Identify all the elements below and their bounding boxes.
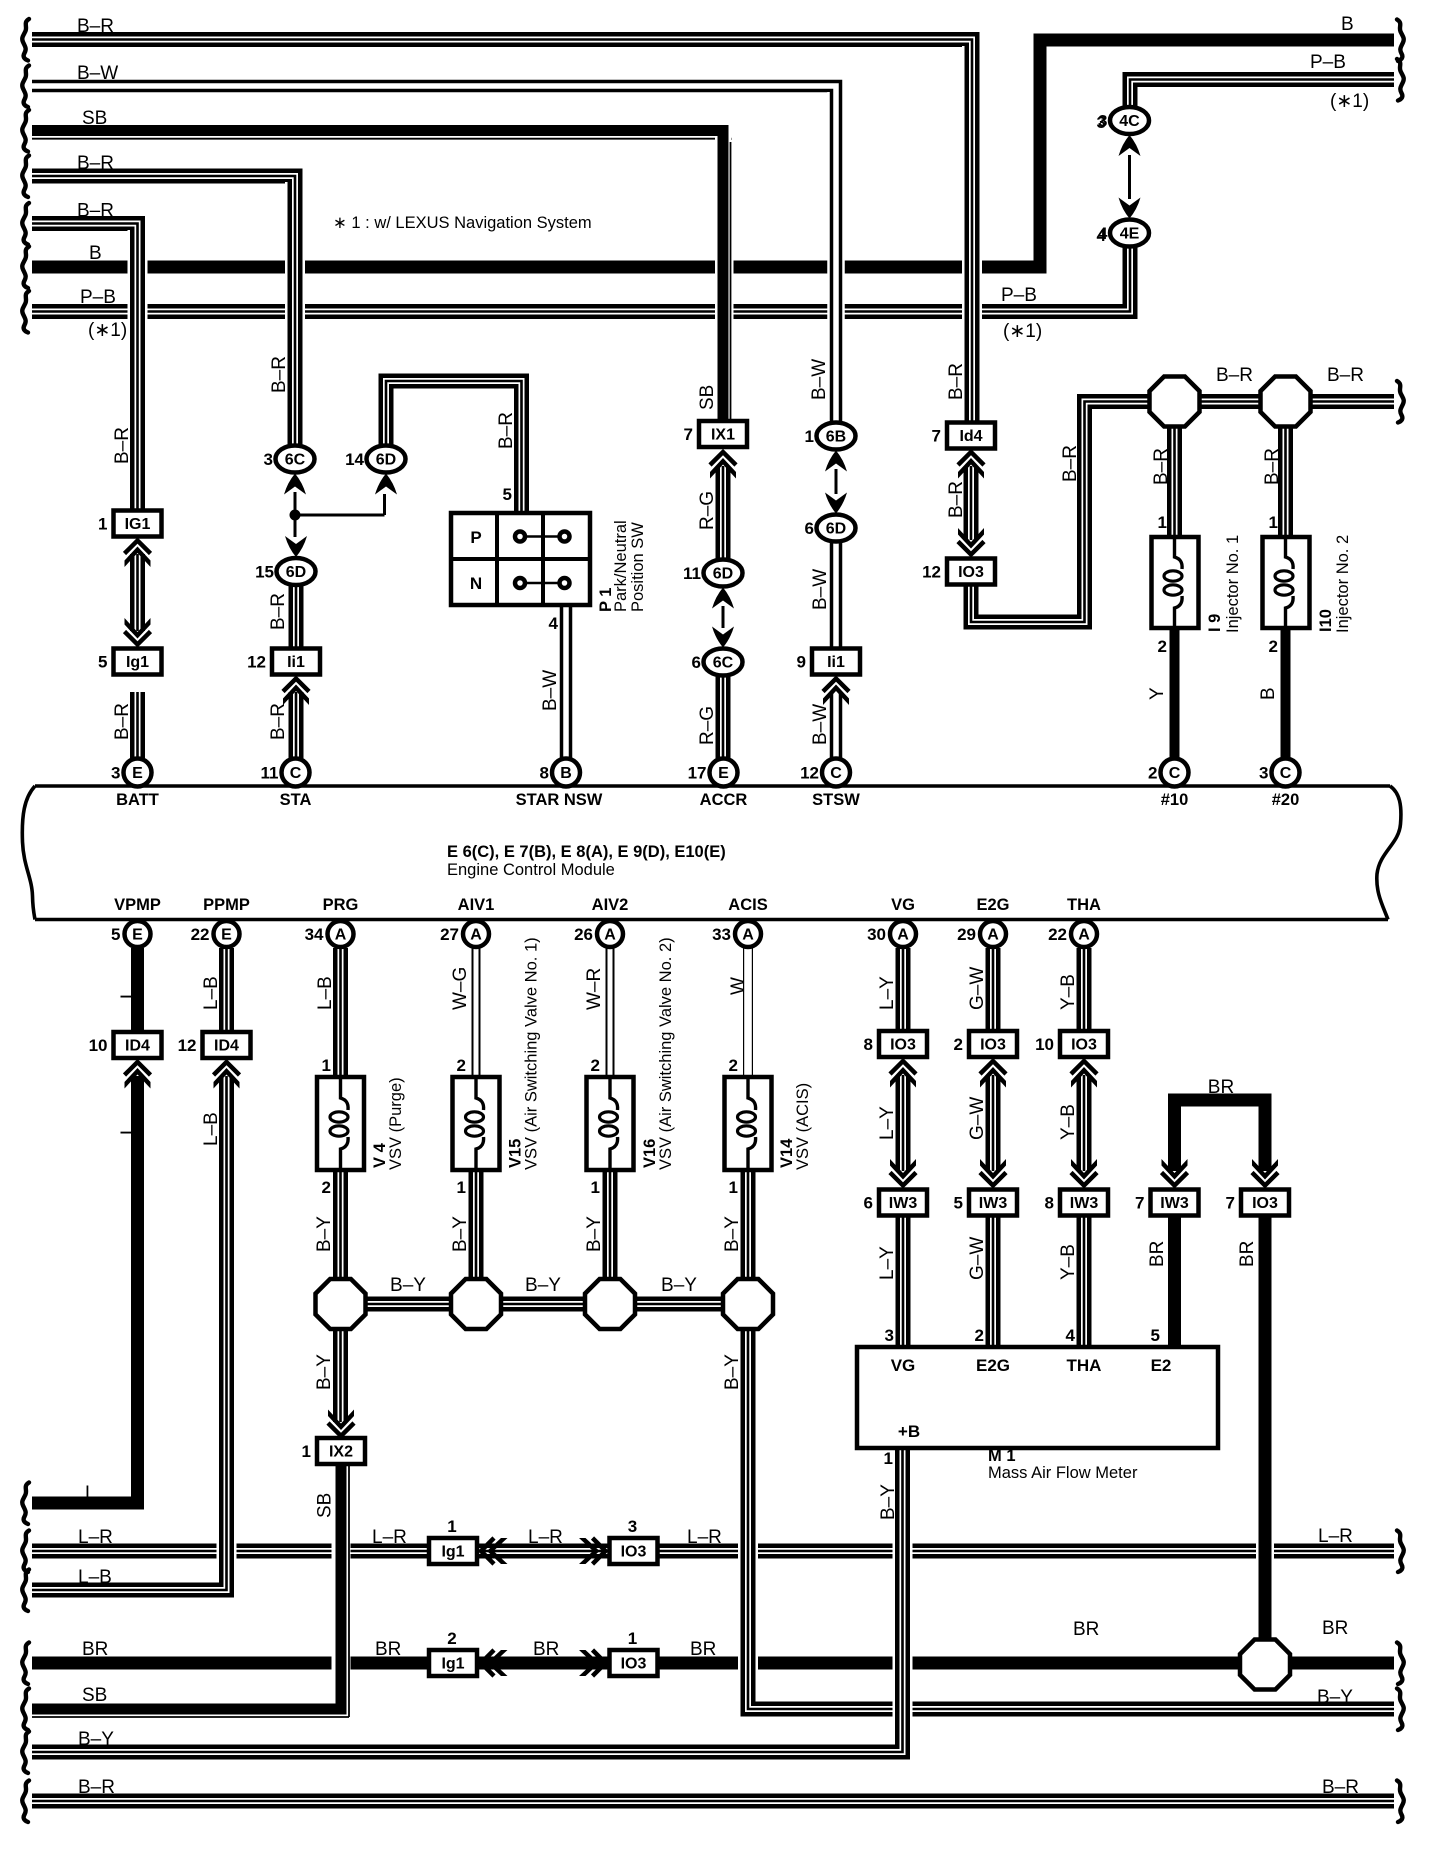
terminal A pin27 AIV1: [463, 921, 489, 947]
svg-text:2: 2: [975, 1326, 984, 1345]
svg-text:L–B: L–B: [78, 1567, 112, 1588]
svg-text:ACCR: ACCR: [700, 791, 748, 809]
svg-text:B–Y: B–Y: [584, 1216, 605, 1252]
svg-text:Y–B: Y–B: [1058, 974, 1079, 1010]
connector ID4 pin10: [114, 1032, 162, 1058]
svg-text:30: 30: [867, 925, 886, 944]
arrow into Ig1 bottom L-R: [481, 1538, 494, 1564]
svg-text:A: A: [335, 927, 347, 944]
svg-text:4E: 4E: [1120, 226, 1140, 243]
svg-text:SB: SB: [697, 385, 718, 410]
svg-text:4: 4: [1066, 1326, 1076, 1345]
wire bus B-R top5: [32, 224, 138, 513]
connector ID4 pin12: [203, 1032, 251, 1058]
svg-text:B–R: B–R: [78, 1777, 115, 1798]
svg-text:+B: +B: [898, 1422, 920, 1441]
wire B-R STA column: [285, 182, 305, 445]
wire W-G AIV1 column: [472, 948, 481, 1077]
wire bus B thick: [32, 40, 1394, 267]
wire B-Y mass air flow pin1 down to left bus: [893, 1448, 913, 1744]
svg-text:26: 26: [574, 925, 593, 944]
svg-text:L–Y: L–Y: [877, 1106, 898, 1140]
terminal E pin22 PPMP: [214, 921, 240, 947]
svg-text:VSV (Air Switching Valve No. 2: VSV (Air Switching Valve No. 2): [657, 937, 675, 1170]
svg-text:IX2: IX2: [329, 1444, 353, 1461]
arrow into IO3 pin2: [980, 1061, 1006, 1074]
connector oval 4C pin3: [1110, 107, 1149, 134]
svg-text:3: 3: [111, 764, 120, 783]
arrow into Id4: [958, 452, 984, 465]
connector Ig1 pin1 bottom: [429, 1538, 477, 1564]
valve V14 VSV ACIS: [725, 1077, 772, 1170]
node octagon junction A: [316, 1279, 366, 1329]
svg-text:B–Y: B–Y: [878, 1484, 899, 1520]
svg-text:11: 11: [261, 764, 279, 783]
svg-text:I10: I10: [1317, 609, 1335, 632]
svg-text:Y–B: Y–B: [1058, 1104, 1079, 1140]
wire Y injector1 to ECM #10: [1170, 628, 1180, 759]
arrow into Ig1 bottom BR: [481, 1650, 494, 1676]
wire B-R bus bottom: [32, 1794, 1394, 1809]
terminal E pin5 VPMP: [125, 921, 151, 947]
svg-text:B–R: B–R: [1216, 365, 1253, 386]
svg-text:Injector No. 1: Injector No. 1: [1224, 535, 1242, 633]
wire B-R Id4 column: [962, 46, 982, 421]
svg-text:E2G: E2G: [976, 1356, 1010, 1375]
svg-text:A: A: [897, 927, 909, 944]
node junction dot STA: [290, 510, 301, 521]
node octagon junction E: [1240, 1640, 1290, 1690]
svg-text:#20: #20: [1272, 791, 1300, 809]
svg-text:THA: THA: [1067, 896, 1101, 914]
svg-text:I 9: I 9: [1206, 614, 1224, 632]
svg-text:SB: SB: [82, 108, 107, 129]
connector IO3 pin1 bottom: [610, 1650, 658, 1676]
svg-text:6D: 6D: [286, 564, 306, 581]
svg-text:6: 6: [805, 519, 814, 538]
svg-text:2: 2: [447, 1629, 456, 1648]
svg-text:1: 1: [457, 1178, 466, 1197]
arrow into ID4 pin10: [125, 1062, 151, 1075]
svg-text:B–Y: B–Y: [314, 1216, 335, 1252]
torn edge left B-R: [22, 1781, 29, 1823]
svg-text:C: C: [1280, 765, 1292, 782]
svg-text:9: 9: [797, 653, 806, 672]
wire R-G ACCR column: [716, 466, 731, 560]
svg-text:IW3: IW3: [979, 1195, 1008, 1212]
wire bus P-B right: [1130, 80, 1394, 109]
svg-text:A: A: [470, 927, 482, 944]
terminal A pin29 E2G: [980, 921, 1006, 947]
terminal C pin11 STA: [282, 759, 310, 787]
wire L-Y VG column: [896, 948, 911, 1031]
wire thin link 6B to 6D6: [835, 469, 838, 494]
svg-text:W: W: [728, 977, 749, 995]
torn edge left bus2: [22, 66, 29, 108]
svg-text:STA: STA: [280, 791, 312, 809]
svg-text:5: 5: [1151, 1326, 1160, 1345]
terminal A pin22 THA: [1071, 921, 1097, 947]
svg-text:C: C: [1169, 765, 1181, 782]
svg-text:IX1: IX1: [711, 427, 735, 444]
svg-text:L: L: [118, 1124, 139, 1135]
connector Ii1 pin9: [812, 649, 860, 675]
svg-text:IO3: IO3: [1071, 1037, 1097, 1054]
svg-text:IO3: IO3: [621, 1656, 647, 1673]
connector IO3 pin2: [969, 1031, 1017, 1057]
ECM module band Engine Control Module: [35, 784, 1390, 788]
svg-text:8: 8: [1045, 1194, 1054, 1213]
svg-text:Ii1: Ii1: [287, 654, 305, 671]
svg-text:G–W: G–W: [967, 967, 988, 1010]
svg-text:L: L: [118, 988, 139, 999]
wire B-R IO3-12 to octagon junction: [971, 402, 1152, 623]
arrow into IO3 bottom BR: [593, 1650, 606, 1676]
svg-text:(∗1): (∗1): [88, 320, 127, 341]
svg-text:6D: 6D: [376, 452, 396, 469]
svg-text:8: 8: [540, 764, 549, 783]
connector oval 6D pin15: [277, 558, 316, 585]
svg-text:Ig1: Ig1: [441, 1656, 464, 1673]
arrow into IO3 pin10: [1071, 1061, 1097, 1074]
connector Id4 pin7: [947, 423, 995, 449]
node octagon junction D: [723, 1279, 773, 1329]
svg-text:A: A: [604, 927, 616, 944]
torn edge left SB: [22, 1689, 29, 1731]
svg-text:L–B: L–B: [201, 1112, 222, 1146]
arrow into ID4 pin12: [214, 1062, 240, 1075]
terminal A pin33 ACIS: [735, 921, 761, 947]
svg-text:C: C: [830, 765, 842, 782]
svg-text:Mass Air Flow Meter: Mass Air Flow Meter: [988, 1464, 1138, 1482]
svg-text:B–R: B–R: [1327, 365, 1364, 386]
svg-text:M 1: M 1: [988, 1447, 1016, 1465]
svg-text:Id4: Id4: [959, 428, 982, 445]
terminal A pin30 VG: [890, 921, 916, 947]
switch contacts P row: [520, 535, 565, 538]
svg-text:BATT: BATT: [116, 791, 159, 809]
svg-text:4C: 4C: [1119, 113, 1140, 130]
wire B-Y octagon A to IX2: [333, 1327, 348, 1422]
svg-text:B–R: B–R: [946, 481, 967, 518]
svg-text:E: E: [221, 927, 232, 944]
svg-text:10: 10: [89, 1036, 108, 1055]
wire BR bus bottom: [32, 1657, 1394, 1670]
svg-text:B–R: B–R: [1151, 448, 1172, 485]
valve V4 VSV Purge: [317, 1077, 364, 1170]
svg-text:2: 2: [1269, 637, 1278, 656]
arrow into IX2: [328, 1423, 354, 1436]
svg-text:W–G: W–G: [450, 967, 471, 1010]
svg-text:6D: 6D: [713, 566, 733, 583]
svg-text:Y: Y: [1147, 687, 1168, 700]
wire thin link junction to 6D14: [295, 494, 385, 515]
wire thin link junction to 6D15: [294, 515, 297, 537]
svg-text:B–W: B–W: [810, 569, 831, 610]
terminal E pin17 ACCR: [710, 759, 738, 787]
arrow into Ii1 pin12: [283, 679, 309, 692]
wire SB IX1 column halo: [715, 136, 731, 420]
svg-text:7: 7: [1226, 1194, 1235, 1213]
arrow into IO3 pin12: [958, 542, 984, 555]
svg-text:BR: BR: [690, 1639, 716, 1660]
wire SB bus bottom: [32, 1704, 341, 1715]
svg-text:33: 33: [712, 925, 731, 944]
torn edge right bus B: [1397, 20, 1404, 62]
svg-text:11: 11: [683, 564, 701, 583]
svg-text:12: 12: [247, 653, 266, 672]
svg-text:PPMP: PPMP: [203, 896, 250, 914]
svg-text:12: 12: [800, 764, 819, 783]
svg-text:22: 22: [1048, 925, 1067, 944]
svg-text:G–W: G–W: [967, 1237, 988, 1280]
svg-text:Engine Control Module: Engine Control Module: [447, 861, 615, 879]
svg-text:27: 27: [440, 925, 459, 944]
svg-text:#10: #10: [1161, 791, 1189, 809]
svg-text:2: 2: [954, 1035, 963, 1054]
svg-text:VSV (Air Switching Valve No. 1: VSV (Air Switching Valve No. 1): [523, 937, 541, 1170]
svg-text:L–B: L–B: [315, 976, 336, 1010]
svg-text:15: 15: [255, 563, 274, 582]
wire G-W E2G column: [986, 948, 1001, 1031]
torn edge right B-Y: [1397, 1689, 1404, 1731]
svg-text:12: 12: [922, 563, 941, 582]
connector IW3 pin6: [879, 1190, 927, 1216]
svg-text:34: 34: [305, 925, 324, 944]
svg-text:B: B: [1341, 14, 1354, 35]
svg-text:IO3: IO3: [621, 1544, 647, 1561]
wire B-R BATT column IG1 to Ig1 to ECM: [128, 230, 148, 512]
wire Y-B THA column: [1077, 948, 1092, 1031]
torn edge left L: [22, 1483, 29, 1525]
svg-text:6: 6: [864, 1194, 873, 1213]
connector oval 6D pin11: [704, 560, 743, 587]
wire bus SB top3: [32, 131, 723, 421]
svg-text:AIV2: AIV2: [592, 896, 629, 914]
connector oval 6D pin14: [367, 446, 406, 473]
svg-text:P–B: P–B: [80, 287, 116, 308]
svg-text:VG: VG: [891, 1356, 916, 1375]
svg-text:E: E: [132, 927, 143, 944]
svg-text:2: 2: [457, 1056, 466, 1075]
arrow into IO3 bottom L-R: [593, 1538, 606, 1564]
torn edge left bus1: [22, 19, 29, 61]
torn edge left bus P-B: [22, 291, 29, 333]
torn edge left L-R: [22, 1531, 29, 1573]
wire thin link 6C3 junction: [294, 492, 297, 515]
torn edge left L-B: [22, 1570, 29, 1612]
svg-text:B–W: B–W: [810, 704, 831, 745]
svg-text:A: A: [987, 927, 999, 944]
svg-text:BR: BR: [375, 1639, 401, 1660]
svg-text:BR: BR: [1208, 1077, 1234, 1098]
svg-text:ID4: ID4: [214, 1038, 239, 1055]
connector IW3 pin5: [969, 1190, 1017, 1216]
svg-text:Park/Neutral: Park/Neutral: [612, 520, 630, 612]
svg-text:14: 14: [345, 450, 364, 469]
arrow into IO3 pin8: [890, 1061, 916, 1074]
svg-text:12: 12: [178, 1036, 197, 1055]
svg-text:SB: SB: [315, 1493, 336, 1518]
svg-text:B–W: B–W: [77, 63, 118, 84]
svg-text:A: A: [1078, 927, 1090, 944]
arrow into 6D pin11: [712, 588, 734, 609]
arrow into 6C pin6: [712, 627, 734, 648]
svg-text:8: 8: [864, 1035, 873, 1054]
torn edge right B-R octagons: [1397, 381, 1404, 423]
svg-text:ID4: ID4: [125, 1038, 150, 1055]
svg-text:Ig1: Ig1: [441, 1544, 464, 1561]
meter M1 Mass Air Flow Meter: [857, 1347, 1218, 1448]
svg-text:6B: 6B: [826, 429, 846, 446]
svg-text:B–R: B–R: [1262, 448, 1283, 485]
svg-text:A: A: [742, 927, 754, 944]
svg-text:5: 5: [111, 925, 120, 944]
svg-text:B–R: B–R: [77, 201, 114, 222]
svg-text:5: 5: [98, 653, 107, 672]
svg-text:B: B: [89, 243, 102, 264]
torn edge left B-Y: [22, 1732, 29, 1774]
torn edge left bus3: [22, 110, 29, 152]
svg-text:1: 1: [805, 427, 814, 446]
connector IX1 pin7: [699, 421, 747, 447]
node octagon junction C: [585, 1279, 635, 1329]
svg-text:B–Y: B–Y: [390, 1275, 426, 1296]
connector oval 6B pin1: [817, 423, 856, 450]
svg-text:B–R: B–R: [269, 356, 290, 393]
svg-text:B–R: B–R: [496, 412, 517, 449]
arrow into 6D pin15: [285, 536, 307, 557]
wire L-B bus bottom: [32, 1583, 227, 1598]
arrow into IW3 pin7: [1162, 1173, 1188, 1186]
connector IX2 pin1: [317, 1438, 365, 1464]
svg-text:6: 6: [692, 653, 701, 672]
svg-text:ACIS: ACIS: [728, 896, 767, 914]
wire B-Y V16 to octagon C: [603, 1170, 618, 1281]
svg-text:B: B: [1258, 687, 1279, 700]
arrow into IX1: [710, 452, 736, 465]
svg-text:B–Y: B–Y: [722, 1354, 743, 1390]
svg-text:P–B: P–B: [1001, 285, 1037, 306]
svg-text:7: 7: [684, 425, 693, 444]
svg-text:B–Y: B–Y: [450, 1216, 471, 1252]
svg-text:3: 3: [264, 450, 273, 469]
connector oval 6C pin6: [704, 649, 743, 676]
svg-text:6C: 6C: [713, 655, 734, 672]
svg-text:Y–B: Y–B: [1058, 1244, 1079, 1280]
arrow into IW3 pin8: [1071, 1173, 1097, 1186]
arrow into 6D pin14: [375, 474, 397, 495]
arrow into Ig1: [125, 632, 151, 645]
wire B-Y V4 to octagon A: [333, 1170, 348, 1281]
svg-text:B–R: B–R: [112, 703, 133, 740]
svg-text:(∗1): (∗1): [1330, 91, 1369, 112]
wire W-R AIV2 column: [606, 948, 615, 1077]
svg-text:1: 1: [1158, 513, 1167, 532]
svg-text:B–Y: B–Y: [314, 1354, 335, 1390]
terminal A pin26 AIV2: [597, 921, 623, 947]
connector IO3 pin3 bottom: [610, 1538, 658, 1564]
torn edge right bus P-B: [1397, 59, 1404, 101]
svg-text:STAR NSW: STAR NSW: [516, 791, 603, 809]
svg-text:B–Y: B–Y: [722, 1216, 743, 1252]
torn edge left bus5: [22, 203, 29, 245]
wire B injector2 to ECM #20: [1281, 628, 1291, 759]
arrow into Ii1 pin9: [823, 679, 849, 692]
svg-text:L–R: L–R: [372, 1527, 407, 1548]
svg-text:Position SW: Position SW: [629, 522, 647, 612]
svg-text:B–Y: B–Y: [661, 1275, 697, 1296]
connector IO3 pin7: [1241, 1190, 1289, 1216]
svg-text:B–R: B–R: [77, 153, 114, 174]
node octagon junction B: [451, 1279, 501, 1329]
torn edge right L-R: [1397, 1531, 1404, 1573]
torn edge right B-R: [1397, 1781, 1404, 1823]
connector IO3 pin8: [879, 1031, 927, 1057]
svg-text:L–Y: L–Y: [877, 976, 898, 1010]
svg-text:L–Y: L–Y: [877, 1246, 898, 1280]
wire B-Y octagon links: [365, 1297, 452, 1312]
connector IG1 pin1: [114, 511, 162, 537]
svg-text:B–R: B–R: [112, 427, 133, 464]
svg-text:3: 3: [628, 1517, 637, 1536]
svg-text:C: C: [290, 765, 302, 782]
svg-text:SB: SB: [82, 1685, 107, 1706]
svg-text:B–R: B–R: [268, 593, 289, 630]
wire B-Y bus bottom-left: [32, 1745, 903, 1760]
switch P1 Park Neutral Position SW: [451, 513, 590, 605]
wire B-R octagon links to injectors: [1197, 394, 1263, 409]
svg-text:1: 1: [729, 1178, 738, 1197]
arrow into IG1: [125, 541, 151, 554]
wire B-Y V15 to octagon B: [469, 1170, 484, 1281]
svg-text:L–B: L–B: [201, 976, 222, 1010]
svg-text:BR: BR: [1073, 1619, 1099, 1640]
wire L-B PPMP column: [217, 1076, 237, 1583]
arrow into 4E: [1119, 198, 1141, 219]
svg-text:L–R: L–R: [687, 1527, 722, 1548]
torn edge left bus B: [22, 247, 29, 289]
svg-text:2: 2: [1148, 764, 1157, 783]
terminal C pin12 STSW: [822, 759, 850, 787]
wire BR IO3-7 down to octagon E: [1256, 1216, 1274, 1640]
wire B-W STSW column: [827, 92, 845, 423]
torn edge right BR: [1397, 1643, 1404, 1685]
svg-text:VSV (Purge): VSV (Purge): [387, 1077, 405, 1170]
wire SB IX2 to SB bus: [332, 1462, 351, 1698]
svg-text:IW3: IW3: [1070, 1195, 1099, 1212]
svg-text:E: E: [132, 765, 143, 782]
connector oval 6D pin6: [817, 515, 856, 542]
connector Ig1 pin2 bottom: [429, 1650, 477, 1676]
switch contacts N row: [520, 582, 565, 585]
svg-text:BR: BR: [82, 1639, 108, 1660]
wire thin link 4C to 4E: [1128, 155, 1131, 199]
svg-text:1: 1: [1269, 513, 1278, 532]
wire B-Y V14 to octagon D: [741, 1170, 756, 1281]
svg-text:4: 4: [1097, 226, 1107, 245]
svg-text:STSW: STSW: [812, 791, 860, 809]
svg-text:B–W: B–W: [809, 359, 830, 400]
wire B-R loop 6D14 to park neutral switch: [386, 381, 522, 513]
svg-text:7: 7: [932, 427, 941, 446]
connector oval 4E pin4: [1110, 220, 1149, 247]
svg-text:IO3: IO3: [1252, 1195, 1278, 1212]
svg-text:6C: 6C: [285, 452, 306, 469]
svg-text:4: 4: [549, 614, 559, 633]
svg-text:G–W: G–W: [967, 1097, 988, 1140]
svg-text:B: B: [560, 765, 572, 782]
